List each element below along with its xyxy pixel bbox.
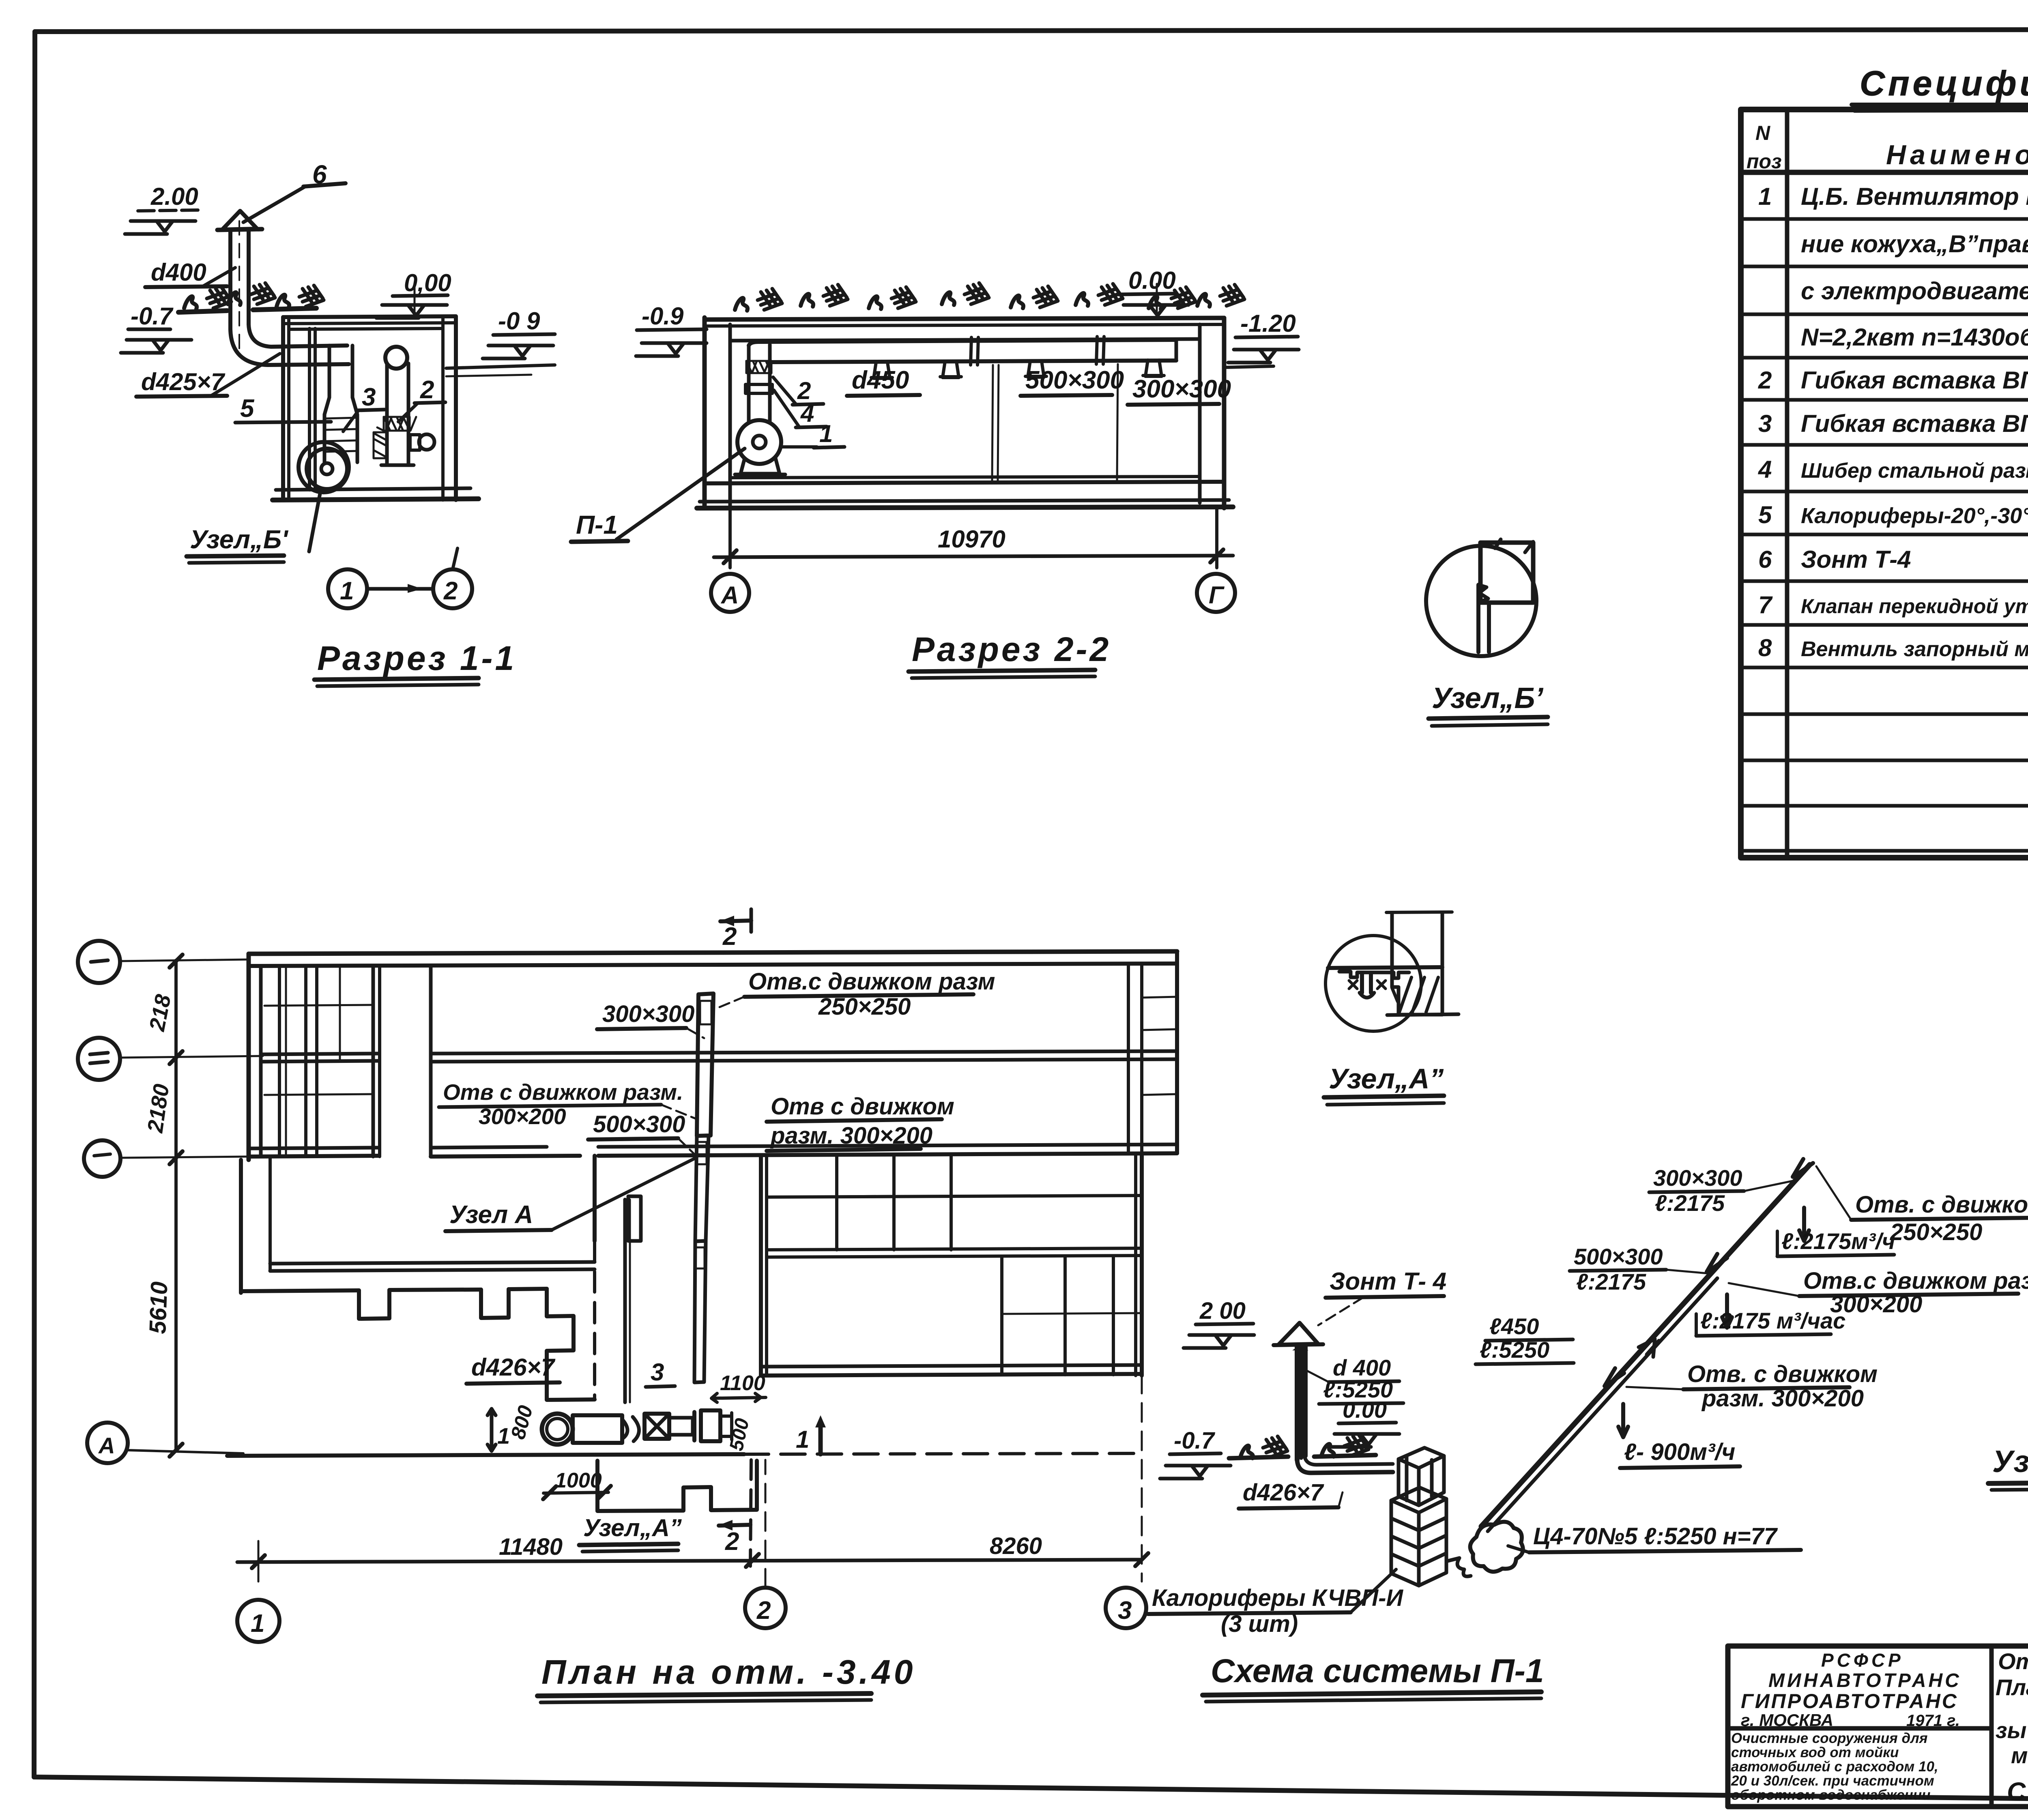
svg-text:2180: 2180 xyxy=(143,1082,174,1134)
svg-text:Гибкая вставка ВГВ-5: Гибкая вставка ВГВ-5 xyxy=(1801,410,2028,437)
svg-text:автомобилей с расходом 10,: автомобилей с расходом 10, xyxy=(1731,1759,1938,1775)
svg-text:План на отм.-3.40.Разре-: План на отм.-3.40.Разре- xyxy=(1996,1674,2028,1700)
svg-text:1100: 1100 xyxy=(720,1371,765,1395)
svg-text:d426×7: d426×7 xyxy=(1243,1479,1324,1506)
svg-text:поз: поз xyxy=(1747,150,1782,173)
svg-text:1: 1 xyxy=(340,577,354,605)
svg-text:-0 9: -0 9 xyxy=(498,307,540,335)
svg-text:3: 3 xyxy=(1758,410,1772,437)
svg-text:5: 5 xyxy=(1758,501,1772,528)
svg-text:-0.7: -0.7 xyxy=(131,303,174,330)
fan assembly chain xyxy=(542,1414,573,1444)
svg-text:8260: 8260 xyxy=(990,1533,1042,1559)
svg-text:зы 1-1 и 2-2.Схема систе-: зы 1-1 и 2-2.Схема систе- xyxy=(1996,1717,2028,1743)
svg-text:А: А xyxy=(98,1433,115,1458)
svg-text:Разрез 1-1: Разрез 1-1 xyxy=(317,639,516,677)
svg-text:Узел„Б’: Узел„Б’ xyxy=(1432,682,1543,715)
svg-text:500×300: 500×300 xyxy=(1025,366,1124,394)
300x300 duct vertical (upper) xyxy=(697,994,713,1136)
ground hatch above xyxy=(735,289,782,311)
svg-text:г. МОСКВА: г. МОСКВА xyxy=(1741,1711,1833,1730)
svg-text:1971 г.: 1971 г. xyxy=(1906,1712,1960,1730)
svg-text:4: 4 xyxy=(800,400,814,427)
svg-text:П-1: П-1 xyxy=(576,510,618,539)
svg-text:-0.7: -0.7 xyxy=(1174,1427,1216,1454)
SECTION-2-2 (Разрез 2-2) xyxy=(571,267,1299,678)
svg-text:2: 2 xyxy=(443,577,458,605)
fan blob xyxy=(1470,1522,1523,1572)
svg-text:Г: Г xyxy=(1209,582,1225,609)
interior mid wall (corridor) xyxy=(261,1054,378,1054)
svg-text:Ц.Б. Вентилятор N5исп 1 положе: Ц.Б. Вентилятор N5исп 1 положе. xyxy=(1801,183,2028,210)
svg-text:Узел А: Узел А xyxy=(449,1201,533,1229)
svg-text:ℓ450: ℓ450 xyxy=(1489,1313,1539,1339)
ground scribbles xyxy=(184,287,231,309)
svg-text:оборотном водоснабжении: оборотном водоснабжении xyxy=(1731,1787,1931,1803)
svg-text:800: 800 xyxy=(507,1403,537,1442)
chamber box walls xyxy=(281,317,285,500)
SPEC-TABLE xyxy=(1852,64,2028,111)
interior column dashed lines xyxy=(992,365,993,481)
svg-text:разм. 300×200: разм. 300×200 xyxy=(1701,1385,1864,1412)
svg-text:Отопление и вентиляция.: Отопление и вентиляция. xyxy=(1998,1648,2028,1674)
svg-text:Отв с движком разм.: Отв с движком разм. xyxy=(443,1080,683,1105)
svg-text:6: 6 xyxy=(1758,546,1772,573)
svg-text:Отв.с движком разм: Отв.с движком разм xyxy=(1803,1268,2028,1294)
svg-text:250×250: 250×250 xyxy=(1890,1219,1982,1245)
svg-text:Отв.с движком разм: Отв.с движком разм xyxy=(748,968,995,995)
svg-text:-1.20: -1.20 xyxy=(1240,310,1296,337)
dimension 10970 xyxy=(728,508,732,568)
svg-text:Зонт Т- 4: Зонт Т- 4 xyxy=(1330,1268,1446,1295)
ground hatch xyxy=(1240,1436,1287,1458)
duct joints xyxy=(971,337,1104,365)
UZEL-A DETAIL xyxy=(1324,912,1459,1105)
SPEC-TABLE-HEADER-TEXT xyxy=(1747,114,2028,173)
svg-text:0,00: 0,00 xyxy=(404,269,451,296)
exhaust pipe right with valve xyxy=(385,347,407,369)
axis circles A and G xyxy=(711,574,749,612)
left rooms partitions xyxy=(278,966,281,1157)
svg-text:2: 2 xyxy=(420,376,434,404)
chimney d400 xyxy=(228,231,232,329)
pipe bend to heaters xyxy=(1297,1460,1393,1473)
svg-text:ГИПРОАВТОТРАНС: ГИПРОАВТОТРАНС xyxy=(1741,1690,1958,1713)
svg-text:ℓ:5250: ℓ:5250 xyxy=(1480,1337,1549,1363)
T-duct profile xyxy=(1339,972,1409,978)
svg-text:0.00: 0.00 xyxy=(1343,1397,1387,1423)
svg-text:ℓ:2175: ℓ:2175 xyxy=(1576,1269,1646,1294)
duct hangers xyxy=(871,360,1164,378)
svg-text:РСФСР: РСФСР xyxy=(1821,1650,1904,1671)
svg-text:300×200: 300×200 xyxy=(479,1104,566,1129)
svg-text:Узел„А”: Узел„А” xyxy=(583,1514,682,1541)
protrusion below xyxy=(597,1461,757,1511)
svg-text:10970: 10970 xyxy=(938,526,1005,553)
svg-text:500×300: 500×300 xyxy=(593,1111,685,1137)
svg-text:4: 4 xyxy=(1758,456,1772,483)
branch arrows down xyxy=(1799,1208,1809,1241)
bottom wall of top band xyxy=(249,1148,378,1148)
svg-text:Узел„А”: Узел„А” xyxy=(1329,1063,1444,1095)
svg-text:ние кожуха„В”правого вращения: ние кожуха„В”правого вращения xyxy=(1801,230,2028,258)
svg-text:500×300: 500×300 xyxy=(1574,1244,1663,1269)
axis circles 1 and 2 xyxy=(328,569,367,608)
fan circle item1 xyxy=(307,449,347,489)
svg-text:А: А xyxy=(720,582,739,609)
SECTION-1-1 (Разрез 1-1) xyxy=(121,160,555,686)
svg-text:d425×7: d425×7 xyxy=(141,368,226,395)
svg-text:Схема системы П-1: Схема системы П-1 xyxy=(1211,1653,1544,1689)
SCHEMA (Схема системы П-1) xyxy=(1148,1159,2028,1702)
svg-text:5: 5 xyxy=(240,395,255,423)
svg-text:1: 1 xyxy=(1758,183,1772,210)
heater stripes (item 5 kalorifer) xyxy=(324,418,357,419)
svg-text:Спецификация: Спецификация xyxy=(2007,1777,2028,1806)
UZEL-OBVYAZKI (Узел обвязки калориферов) xyxy=(1988,1172,2028,1490)
bottom dimension line xyxy=(237,1560,1142,1562)
svg-text:0.00: 0.00 xyxy=(1128,267,1176,294)
svg-text:-0.9: -0.9 xyxy=(642,303,684,330)
svg-text:(3 шт): (3 шт) xyxy=(1221,1611,1298,1637)
svg-text:Отв. с движком разм: Отв. с движком разм xyxy=(1855,1191,2028,1218)
svg-text:1000: 1000 xyxy=(555,1469,602,1492)
svg-text:2.00: 2.00 xyxy=(150,183,198,210)
riser from fan with flex insert xyxy=(747,346,751,422)
chamber outer walls xyxy=(702,318,707,508)
svg-text:2 00: 2 00 xyxy=(1199,1298,1246,1324)
A axis bottom wall line xyxy=(227,1454,744,1456)
crosshatch flex inserts xyxy=(374,417,416,458)
fan unit (item1) xyxy=(737,420,781,464)
svg-text:Шибер стальной разм.356×356: Шибер стальной разм.356×356 xyxy=(1801,459,2028,483)
svg-text:ℓ:2175 м³/час: ℓ:2175 м³/час xyxy=(1700,1308,1845,1333)
svg-text:2: 2 xyxy=(722,923,737,951)
svg-text:d426×7: d426×7 xyxy=(471,1354,556,1381)
dim 800 vertical xyxy=(488,1409,496,1451)
zont T-4 (item 6) xyxy=(222,211,257,230)
svg-text:Узел„Б': Узел„Б' xyxy=(190,525,288,554)
svg-text:Зонт Т-4: Зонт Т-4 xyxy=(1801,546,1911,573)
svg-text:Клапан перекидной утепленный к: Клапан перекидной утепленный кз xyxy=(1801,595,2028,618)
svg-text:Отв. с движком: Отв. с движком xyxy=(1687,1361,1878,1387)
big lower room outline xyxy=(239,1160,243,1293)
svg-text:План на отм. -3.40: План на отм. -3.40 xyxy=(541,1653,916,1691)
svg-text:МИНАВТОТРАНС: МИНАВТОТРАНС xyxy=(1768,1670,1961,1691)
svg-text:ℓ- 900м³/ч: ℓ- 900м³/ч xyxy=(1624,1439,1735,1465)
building top band walls xyxy=(249,951,1177,954)
left axis circles xyxy=(78,941,120,983)
pipe elbow d426 xyxy=(230,329,349,365)
svg-text:ℓ:2175: ℓ:2175 xyxy=(1655,1190,1725,1216)
vertical dimension chain xyxy=(174,960,178,1451)
svg-text:сточных вод от мойки: сточных вод от мойки xyxy=(1731,1745,1899,1760)
svg-text:Ц4-70№5 ℓ:5250 н=77: Ц4-70№5 ℓ:5250 н=77 xyxy=(1533,1523,1778,1550)
svg-text:7: 7 xyxy=(1758,591,1773,618)
svg-text:3: 3 xyxy=(1118,1597,1132,1625)
UZEL-B DETAIL xyxy=(1426,539,1548,726)
svg-text:11480: 11480 xyxy=(499,1534,563,1560)
svg-text:8: 8 xyxy=(1758,634,1772,661)
svg-text:мы п-1.: мы п-1. xyxy=(2011,1743,2028,1768)
svg-text:2: 2 xyxy=(756,1597,771,1625)
SPEC-TABLE-GRID xyxy=(1741,109,2028,858)
uzel B' highlight circle + leader xyxy=(299,442,349,492)
svg-text:3: 3 xyxy=(651,1359,664,1386)
vertical pipe xyxy=(1295,1346,1300,1460)
svg-text:5610: 5610 xyxy=(144,1281,172,1334)
svg-text:1: 1 xyxy=(819,420,833,447)
svg-text:2: 2 xyxy=(1758,367,1772,394)
svg-text:20 и 30л/сек. при частичном: 20 и 30л/сек. при частичном xyxy=(1731,1773,1934,1789)
svg-text:2: 2 xyxy=(725,1528,739,1556)
svg-text:1: 1 xyxy=(251,1610,264,1638)
horizontal duct d450 xyxy=(749,340,1176,346)
svg-text:Наименование: Наименование xyxy=(1886,140,2028,170)
bottom axis circles xyxy=(237,1600,279,1642)
svg-text:500: 500 xyxy=(726,1417,754,1453)
svg-text:d400: d400 xyxy=(151,259,206,286)
svg-text:d450: d450 xyxy=(852,366,909,394)
svg-text:Разрез 2-2: Разрез 2-2 xyxy=(912,630,1111,668)
svg-text:N: N xyxy=(1755,122,1770,144)
kalorifer isometric stack xyxy=(1391,1448,1446,1586)
svg-text:1: 1 xyxy=(796,1426,809,1453)
svg-text:300×300: 300×300 xyxy=(1653,1165,1742,1191)
svg-text:Вентиль запорный муфтовый ф50: Вентиль запорный муфтовый ф50 xyxy=(1801,637,2028,661)
svg-text:218: 218 xyxy=(145,992,176,1033)
zont triangle xyxy=(1278,1323,1318,1345)
small valve right xyxy=(410,435,420,450)
ceiling line xyxy=(1328,967,1442,968)
svg-text:300×300: 300×300 xyxy=(602,1001,694,1027)
svg-text:Спецификация: Спецификация xyxy=(1860,64,2028,103)
axis leader lines xyxy=(120,959,249,961)
svg-text:250×250: 250×250 xyxy=(818,994,911,1020)
wall opening duct piece at uzel A xyxy=(628,1196,641,1241)
hatched wall block xyxy=(1392,969,1442,1015)
SPEC-TABLE-ROWS-TEXT xyxy=(1758,183,2028,661)
svg-text:с электродвигателем АО2-31-4: с электродвигателем АО2-31-4 xyxy=(1801,277,2028,305)
svg-text:Отв с движком: Отв с движком xyxy=(771,1093,954,1120)
svg-text:ℓ:2175м³/ч: ℓ:2175м³/ч xyxy=(1781,1228,1895,1254)
TITLE-BLOCK (штамп) xyxy=(1728,1646,2028,1807)
diagonal duct xyxy=(1481,1165,1810,1526)
svg-text:N=2,2квт n=1430об/мин: N=2,2квт n=1430об/мин xyxy=(1801,324,2028,351)
svg-text:3: 3 xyxy=(362,383,376,411)
svg-text:300×300: 300×300 xyxy=(1132,375,1231,403)
svg-text:Калориферы-20°,-30°и -40°: Калориферы-20°,-30°и -40° xyxy=(1801,504,2028,528)
section mark 1 right xyxy=(819,1422,823,1454)
d450 riser line xyxy=(623,1200,627,1402)
svg-text:разм. 300×200: разм. 300×200 xyxy=(770,1122,932,1149)
svg-text:Очистные сооружения для: Очистные сооружения для xyxy=(1731,1730,1928,1746)
svg-text:Узел обвязки калориферов: Узел обвязки калориферов xyxy=(1992,1444,2028,1479)
svg-text:Гибкая вставка ВГН-5: Гибкая вставка ВГН-5 xyxy=(1801,367,2028,394)
right strip partitions xyxy=(1127,964,1130,1153)
right block rooms xyxy=(759,1156,763,1376)
PLAN (План на отм. -3.40) xyxy=(78,909,1177,1702)
transition duct item5 down from pipe xyxy=(328,346,331,397)
